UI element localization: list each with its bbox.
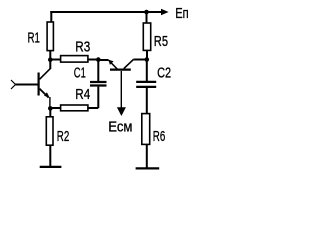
svg-text:R2: R2: [57, 128, 70, 145]
svg-text:C1: C1: [74, 65, 86, 82]
svg-text:R4: R4: [75, 86, 90, 103]
svg-text:Еп: Еп: [175, 5, 189, 22]
svg-text:R3: R3: [75, 38, 90, 55]
svg-text:R1: R1: [28, 30, 41, 47]
svg-text:Есм: Есм: [108, 119, 132, 136]
svg-text:R6: R6: [153, 128, 166, 145]
svg-text:C2: C2: [157, 65, 171, 82]
svg-text:R5: R5: [154, 33, 168, 50]
